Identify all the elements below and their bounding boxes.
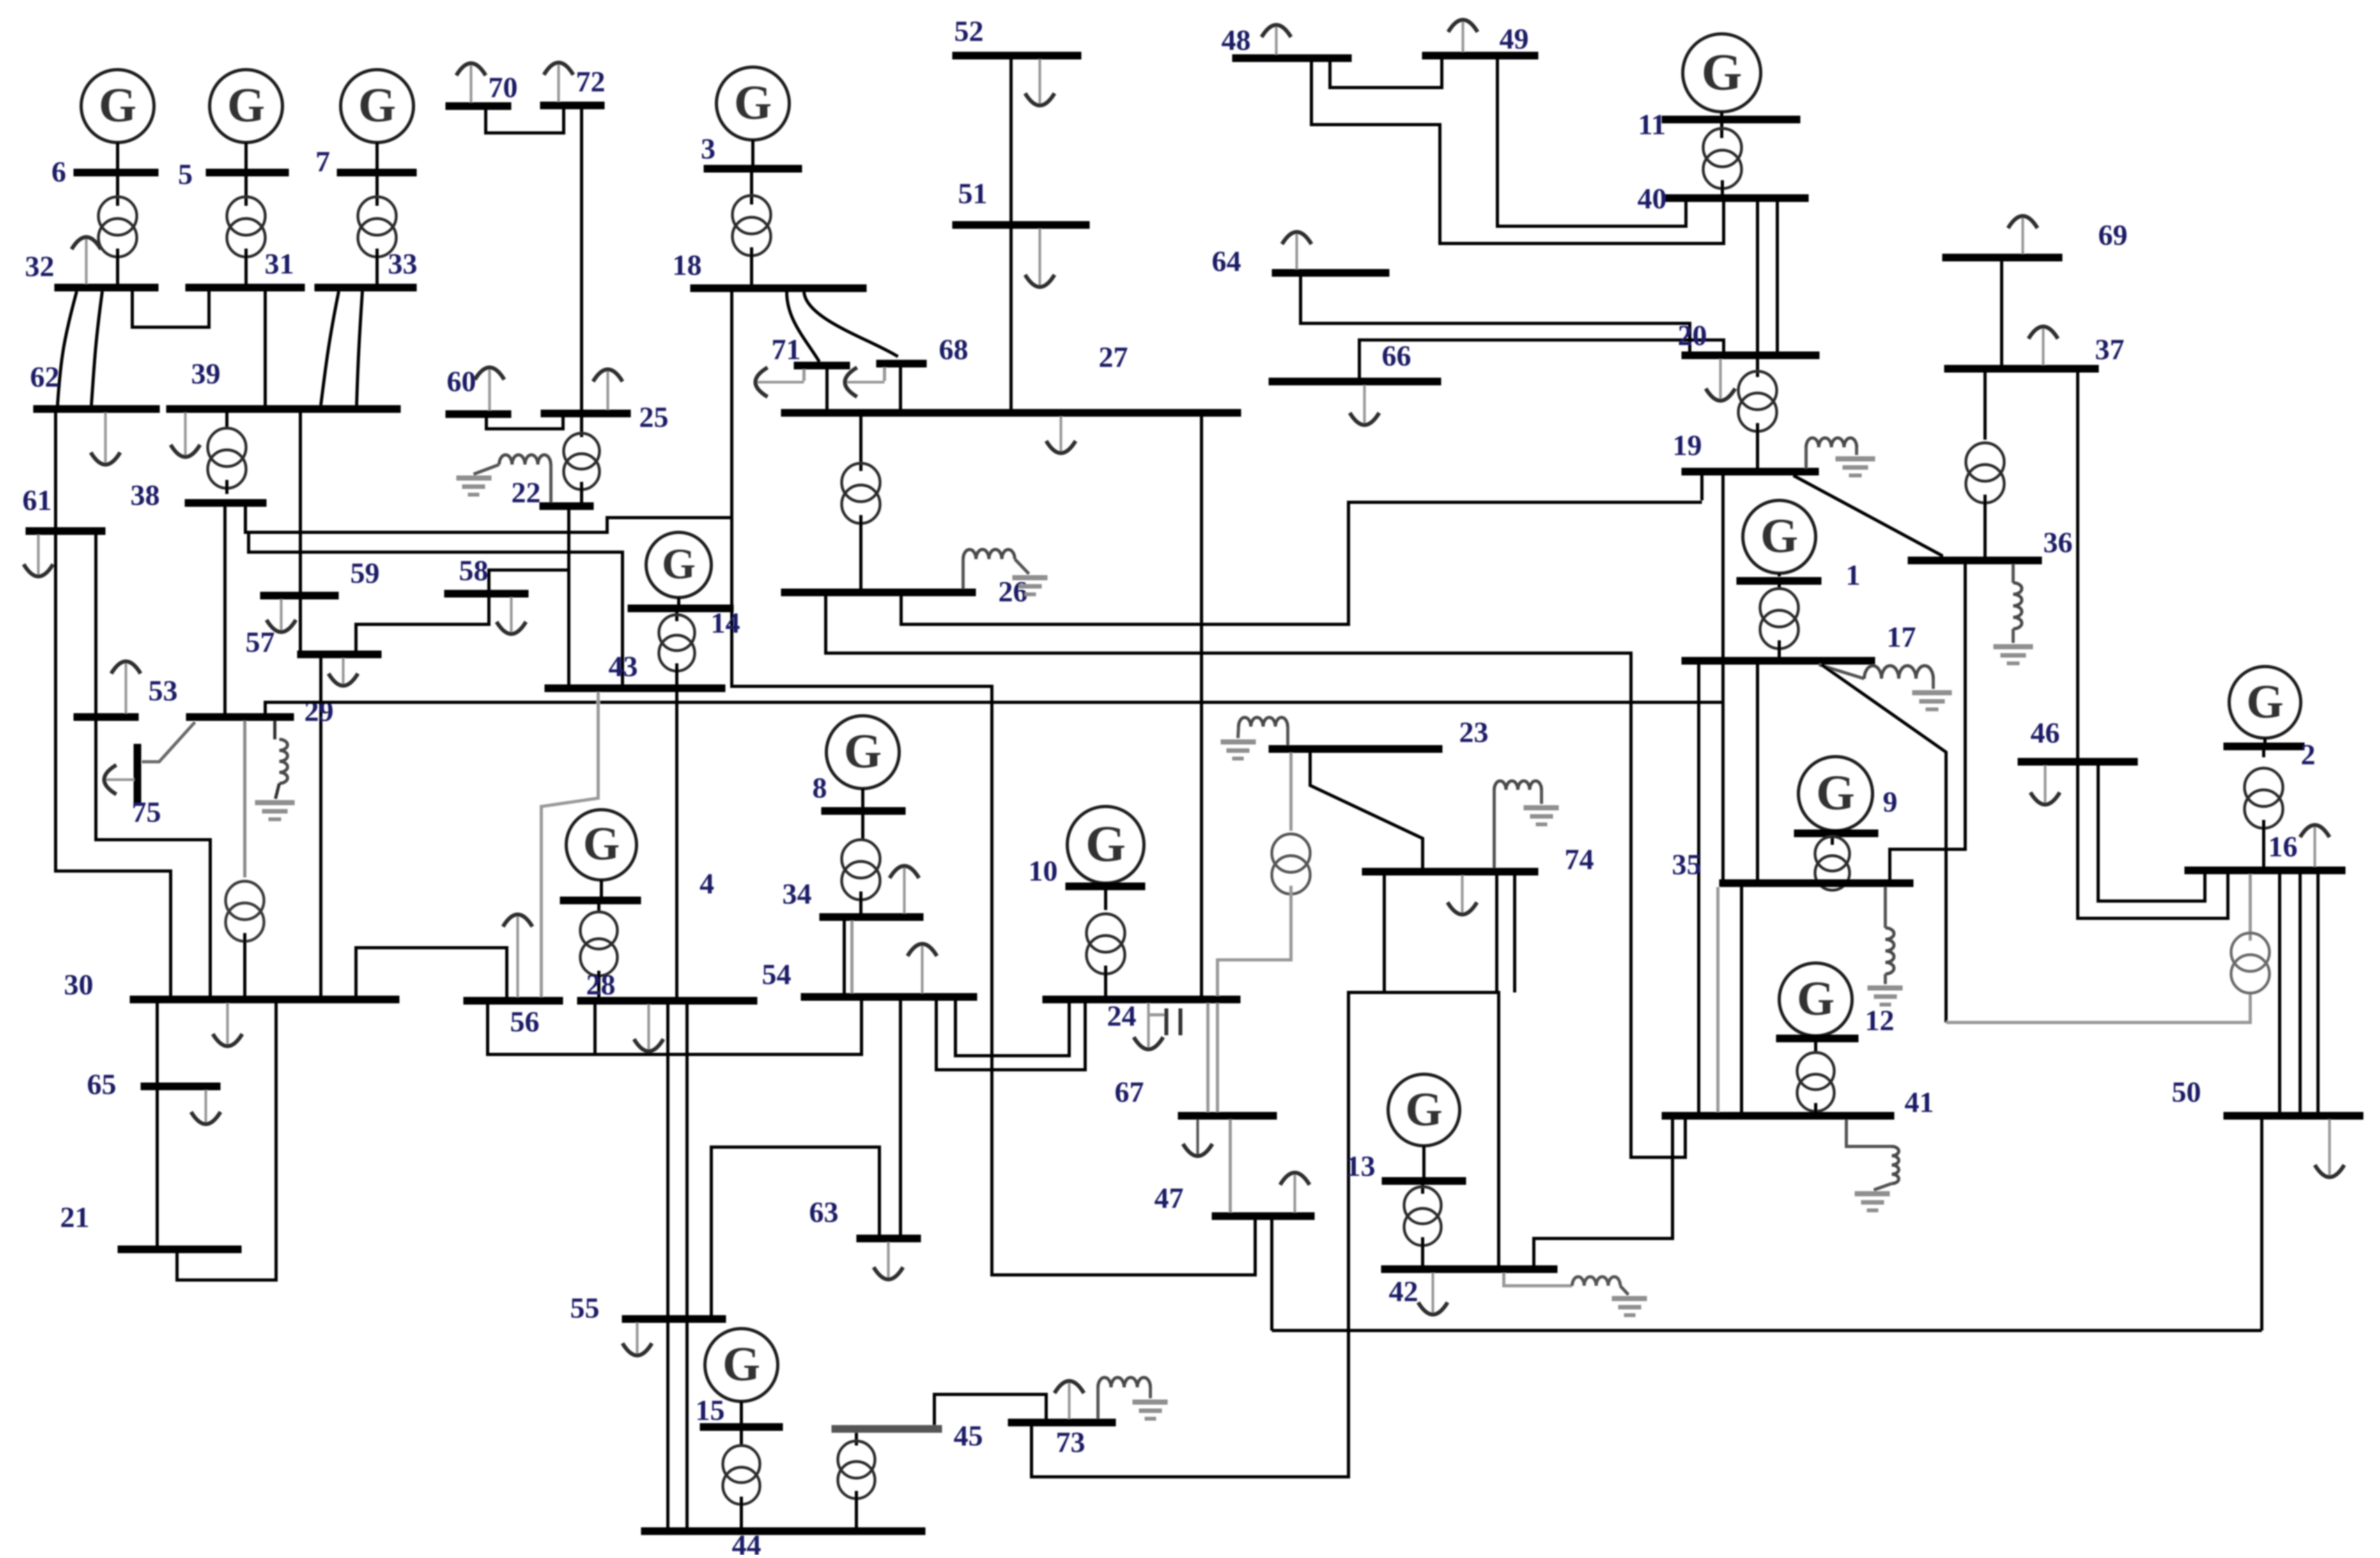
wire transformer 20 down — [1756, 423, 1759, 468]
wire tie 28 riser — [594, 1005, 597, 1054]
wire tie 21-30 — [177, 1003, 276, 1280]
injection arrow (up) bus 73 — [1055, 1381, 1084, 1419]
svg-text:8: 8 — [812, 771, 827, 804]
svg-text:32: 32 — [25, 250, 54, 282]
svg-text:G: G — [358, 79, 396, 132]
reactor and ground at bus 29 — [255, 721, 295, 821]
wire line 24-67 gray — [1207, 1003, 1210, 1112]
injection arrow (up) bus 47 — [1280, 1173, 1310, 1212]
injection arrow (up) bus 48 — [1262, 25, 1291, 54]
capacitor at bus 24 — [1148, 1008, 1182, 1035]
wire bus 39 to transformer — [226, 413, 229, 427]
wire line 39-59 — [299, 413, 302, 592]
bus 43 bar and label — [545, 650, 725, 692]
wire bus 3 to transformer — [750, 173, 753, 204]
svg-text:54: 54 — [762, 958, 791, 991]
wire line 17-35 a — [1722, 665, 1725, 879]
wire line 19-36 diagonal — [1793, 475, 1942, 560]
wire line 31-39 — [264, 291, 267, 405]
wire line 47-50 drop — [1271, 1220, 1274, 1330]
svg-text:G: G — [722, 1338, 760, 1391]
bus 28 bar and label — [577, 968, 757, 1005]
bus 57 bar and label — [245, 626, 382, 658]
wire line 23-67 gray — [1290, 753, 1293, 831]
wire line 49-40 — [1497, 59, 1686, 226]
transformer T 13-42 — [1404, 1187, 1441, 1246]
generator G7 — [341, 70, 413, 143]
wire line 16-50 b — [2299, 874, 2302, 1112]
wire bus 6 to transformer — [116, 176, 120, 206]
svg-text:25: 25 — [639, 401, 668, 433]
bus 21 bar and label — [60, 1201, 242, 1253]
wire transformer 29 down — [243, 933, 247, 996]
wire bus 29 to transformer 30 — [243, 721, 247, 877]
svg-text:70: 70 — [488, 71, 518, 104]
svg-text:15: 15 — [695, 1394, 725, 1426]
svg-text:G: G — [734, 76, 771, 130]
svg-text:38: 38 — [130, 479, 160, 511]
bus 18 bar and label — [672, 249, 867, 292]
bus 53 bar and label — [73, 674, 178, 721]
wire gen 12 lead — [1814, 1035, 1818, 1036]
bus 55 bar and label — [570, 1292, 726, 1324]
transformer T 12-41 — [1797, 1053, 1834, 1111]
bus 44 bar and label — [641, 1527, 925, 1558]
wire line 38-43 upper — [245, 507, 732, 532]
wire line 30-65 — [156, 1003, 159, 1083]
bus 45 bar and label — [831, 1419, 983, 1452]
svg-text:35: 35 — [1672, 848, 1701, 881]
wire gen 5 lead — [245, 143, 248, 169]
wire tie 48-49 — [1330, 59, 1442, 88]
svg-text:52: 52 — [954, 15, 984, 47]
bus 37 bar and label — [1944, 333, 2124, 373]
transformer T 3-18 — [732, 196, 771, 256]
svg-text:G: G — [1405, 1083, 1442, 1136]
wire stub 71 arrow — [803, 369, 806, 381]
svg-text:3: 3 — [701, 132, 716, 165]
bus 65 bar and label — [87, 1068, 220, 1100]
bus 5 bar and label — [178, 158, 290, 190]
svg-text:19: 19 — [1673, 429, 1702, 461]
svg-text:31: 31 — [265, 247, 294, 280]
svg-text:22: 22 — [511, 476, 541, 509]
wire tie 54-24 b — [955, 1001, 1069, 1056]
wire line 71-27 — [826, 369, 829, 410]
svg-text:G: G — [98, 79, 136, 132]
wire line 50 riser to long line — [2260, 1120, 2264, 1330]
wire bus 4 to transformer — [598, 904, 601, 912]
injection arrow (up) bus 53 — [111, 661, 141, 713]
bus 58 bar and label — [444, 554, 529, 598]
wire tie 56-28-54 — [488, 1001, 862, 1054]
load arrow (down) bus 59 — [267, 599, 296, 632]
injection arrow (up) bus 32 — [72, 237, 101, 284]
injection arrow (up) bus 49 — [1448, 20, 1478, 52]
wire transformer 10 down — [1104, 966, 1108, 996]
load arrow (down) bus 66 — [1350, 385, 1379, 425]
injection arrow (up) bus 69 — [2008, 216, 2037, 254]
wire bus 15 to transformer — [740, 1431, 743, 1446]
wire gen 1 lead — [1778, 573, 1781, 576]
injection arrow (up) bus 56 — [503, 914, 532, 997]
wire tie 70-72 — [486, 109, 564, 133]
wire line 32-62 b — [91, 291, 102, 405]
svg-text:16: 16 — [2268, 830, 2298, 863]
generator G13 — [1388, 1074, 1460, 1146]
load arrow (down) bus 30 — [213, 1003, 242, 1046]
svg-text:9: 9 — [1883, 785, 1897, 818]
load arrow (down) bus 67 — [1183, 1120, 1212, 1156]
load arrow (down) bus 61 — [24, 535, 53, 576]
wire line 40-20 b — [1776, 202, 1779, 352]
bus 66 bar and label — [1269, 339, 1441, 385]
svg-text:41: 41 — [1905, 1086, 1934, 1118]
svg-text:37: 37 — [2095, 333, 2124, 366]
svg-text:G: G — [1797, 972, 1834, 1026]
svg-text:64: 64 — [1212, 245, 1241, 277]
reactor and ground at bus 17 — [1819, 665, 1952, 711]
wire line 35-41 b — [1740, 887, 1743, 1112]
wire transformer 4 down — [598, 971, 601, 997]
wire line 52-51-27 — [1010, 59, 1013, 409]
wire transformer 5 down — [245, 249, 248, 286]
load arrow (down) bus 50 — [2315, 1120, 2344, 1177]
wire line 17-41 — [1697, 665, 1701, 1112]
load arrow (down) bus 74 — [1448, 875, 1477, 914]
svg-text:39: 39 — [191, 357, 220, 390]
wire line 48-40 — [1311, 62, 1724, 243]
bus 31 bar and label — [185, 247, 305, 291]
svg-text:66: 66 — [1382, 339, 1411, 372]
wire line 61-53 — [95, 535, 98, 713]
bus 17 bar and label — [1681, 621, 1916, 665]
bus 74 bar and label — [1362, 843, 1594, 875]
wire tie 32-31 — [132, 291, 209, 327]
svg-text:18: 18 — [672, 249, 702, 281]
wire line 74-42 right — [1513, 875, 1517, 992]
injection arrow (up) bus 16 — [2300, 825, 2330, 867]
wire line 46-16 — [2098, 766, 2205, 901]
transformer T 1-17 — [1760, 589, 1798, 649]
load arrow (down) bus 55 — [622, 1323, 652, 1355]
transformer T 9-35 — [1815, 837, 1850, 890]
bus 26 bar and label — [781, 575, 1028, 608]
load arrow (down) bus 63 — [874, 1242, 903, 1279]
wire line 57-30 — [320, 658, 323, 996]
svg-text:40: 40 — [1637, 182, 1667, 215]
svg-text:74: 74 — [1565, 843, 1594, 875]
svg-text:42: 42 — [1389, 1275, 1418, 1307]
wire line 23-74 diagonal — [1310, 753, 1423, 868]
generator G1 — [1743, 500, 1816, 573]
wire line 43-56 gray — [541, 692, 598, 997]
svg-text:G: G — [844, 725, 881, 778]
svg-text:72: 72 — [576, 65, 605, 98]
wire gen 11 lead — [1720, 112, 1724, 116]
svg-text:53: 53 — [148, 674, 178, 707]
bus 1 bar and label — [1736, 559, 1860, 591]
transformer T 7 — [358, 197, 396, 257]
svg-text:21: 21 — [60, 1201, 89, 1233]
svg-text:61: 61 — [22, 484, 52, 516]
svg-text:27: 27 — [1099, 341, 1128, 373]
svg-text:36: 36 — [2043, 526, 2073, 559]
transformer T 10-24 — [1086, 914, 1125, 974]
wire gen 9 lead — [1834, 830, 1837, 831]
wire transformer 7 down — [376, 249, 379, 286]
wire line 69-37 — [2000, 261, 2004, 365]
svg-text:G: G — [227, 79, 265, 132]
wire line 74-73/50 — [1032, 875, 1384, 1477]
svg-text:49: 49 — [1499, 22, 1529, 55]
svg-text:24: 24 — [1107, 999, 1136, 1032]
wire transformer 6 down — [116, 249, 120, 286]
bus 62 bar and label — [30, 360, 160, 413]
injection arrow (up) bus 72 — [544, 63, 573, 102]
bus 52 bar and label — [952, 15, 1081, 59]
svg-text:50: 50 — [2172, 1076, 2201, 1108]
injection arrow (up) bus 64 — [1282, 232, 1311, 269]
wire line 37-16 — [2078, 766, 2228, 918]
wire transformer 25 down — [580, 482, 583, 502]
generator G5 — [210, 70, 282, 143]
injection arrow (up) bus 70 — [456, 63, 486, 102]
svg-text:75: 75 — [132, 796, 161, 828]
wire gen 6 lead — [116, 143, 120, 169]
wire transformer 2 down — [2262, 820, 2266, 867]
wire bus 9 to transformer — [1831, 837, 1834, 845]
generator G9 — [1798, 757, 1873, 831]
wire line 43-28 — [676, 692, 679, 997]
svg-text:59: 59 — [350, 557, 380, 589]
wire transformer 45 down — [855, 1491, 858, 1527]
wire line 18-71 — [787, 292, 819, 362]
load arrow (down) bus 57 — [328, 658, 358, 686]
reactor and ground at bus 19 — [1806, 438, 1875, 477]
bus 23 bar and label — [1269, 716, 1488, 753]
wire line 55-63 — [711, 1147, 879, 1315]
wire line 27-24 — [1200, 417, 1203, 996]
svg-text:65: 65 — [87, 1068, 116, 1100]
load arrow (down) bus 46 — [2030, 766, 2060, 805]
wire line 59-57 column — [299, 599, 302, 651]
wire stub 68 arrow — [883, 367, 886, 381]
wire line 55-44 a — [667, 1323, 670, 1527]
bus 4 bar and label — [560, 867, 715, 904]
wire line 55-44 b — [686, 1323, 689, 1527]
wire line 16-50 c — [2317, 874, 2320, 1112]
svg-text:29: 29 — [304, 695, 334, 727]
svg-text:67: 67 — [1115, 1076, 1144, 1108]
bus 6 bar and label — [52, 155, 159, 188]
svg-text:58: 58 — [459, 554, 488, 587]
wire line 58-22 — [489, 570, 569, 590]
svg-text:44: 44 — [732, 1529, 761, 1555]
wire line 62-61 — [54, 413, 58, 527]
bus 22 bar and label — [511, 476, 594, 510]
load arrow (down) bus 62 — [91, 413, 120, 465]
generator G14 — [646, 532, 711, 598]
wire tie 60-25 — [486, 417, 563, 429]
wire bus 2 to transformer — [2262, 750, 2266, 757]
bus 2 bar and label — [2223, 738, 2315, 771]
wire transformer 14 down — [676, 663, 679, 684]
svg-text:55: 55 — [570, 1292, 599, 1324]
svg-text:G: G — [1085, 815, 1125, 872]
wire line 64-20 — [1301, 277, 1690, 351]
wire bus 5 to transformer — [245, 176, 248, 206]
bus 68 bar and label — [876, 333, 968, 367]
wire transformer 15 down — [740, 1497, 743, 1527]
load arrow (down) bus 65 — [191, 1090, 220, 1124]
load arrow (down) bus 20 — [1706, 359, 1735, 401]
wire bus 14 to transformer — [676, 612, 679, 621]
wire rect top 74-42 — [1348, 991, 1499, 994]
wire line 40-20 a — [1756, 202, 1759, 355]
svg-text:48: 48 — [1221, 24, 1251, 56]
bus 7 bar and label — [316, 145, 417, 178]
wire transformer 3 down — [750, 247, 753, 284]
reactor and ground at bus 35 — [1867, 887, 1903, 1007]
svg-text:28: 28 — [586, 968, 615, 1001]
reactor and ground at bus 36 — [1993, 564, 2033, 665]
wire bus 13 to transformer — [1421, 1185, 1425, 1194]
wire gen 3 lead — [752, 140, 755, 165]
svg-text:34: 34 — [782, 877, 812, 910]
wire line 47/73-50 long — [1272, 1329, 2262, 1332]
injection arrow (up) bus 25 — [593, 369, 622, 410]
bus 35 bar and label — [1672, 848, 1913, 887]
transformer T 37-36 — [1966, 443, 2004, 503]
reactor and ground at bus 23 — [1221, 718, 1288, 760]
svg-text:62: 62 — [30, 360, 59, 393]
arrow (left) export arrow bus 71 — [755, 367, 804, 397]
bus 16 bar and label — [2184, 830, 2345, 874]
bus 71 bar and label — [771, 333, 850, 369]
wire bus 11 to transformer — [1720, 123, 1724, 138]
svg-text:G: G — [583, 818, 620, 870]
wire line 53-30 L — [96, 721, 210, 996]
wire line 17-35 b — [1756, 665, 1759, 879]
svg-text:46: 46 — [2030, 716, 2060, 749]
wire transformer 9 down — [1831, 879, 1834, 883]
wire line 67-47 gray — [1229, 1120, 1232, 1212]
wire line 34-54 b — [851, 921, 854, 993]
svg-text:71: 71 — [771, 333, 801, 366]
svg-text:G: G — [2246, 675, 2283, 729]
wire bus 10 to transformer — [1104, 890, 1108, 910]
bus 72 bar and label — [540, 65, 605, 109]
wire bus 16 to transformer 50 — [2249, 874, 2252, 941]
load arrow (down) bus 58 — [497, 598, 526, 634]
generator G12 — [1779, 963, 1852, 1036]
transformer T 45-44 — [838, 1441, 875, 1499]
generator G4 — [566, 810, 637, 880]
bus 49 bar and label — [1422, 22, 1538, 59]
bus 67 bar and label — [1115, 1076, 1277, 1120]
wire gen 7 lead — [376, 143, 379, 169]
wire line 28-55 a — [667, 1005, 670, 1315]
svg-text:14: 14 — [711, 606, 740, 639]
wire line 35-41 a — [1717, 887, 1720, 1112]
svg-text:G: G — [1816, 764, 1855, 820]
bus 42 bar and label — [1381, 1265, 1557, 1307]
svg-text:73: 73 — [1056, 1426, 1085, 1458]
wire transformer 27-26 down — [860, 515, 863, 589]
transformer T 11-40 — [1703, 128, 1742, 189]
bus 9 bar and label — [1794, 785, 1897, 837]
wire line 58-57 — [356, 598, 489, 651]
bus 60 bar and label — [445, 365, 511, 418]
wire line 34-54 a — [843, 921, 846, 993]
wire line 37-46 — [2076, 373, 2080, 758]
svg-text:G: G — [1701, 43, 1742, 101]
bus 14 bar and label — [628, 605, 740, 639]
load arrow (down) bus 51 — [1025, 229, 1055, 287]
arrow (left) export arrow bus 68 — [845, 367, 885, 397]
generator G6 — [81, 70, 154, 143]
wire line 26-19 riser — [1701, 475, 1704, 500]
svg-text:60: 60 — [447, 365, 476, 397]
wire line 17-16 gray part — [1946, 994, 2250, 1022]
svg-text:10: 10 — [1028, 854, 1058, 887]
wire line 72-25 — [580, 109, 583, 410]
transformer T 2-16 — [2245, 768, 2283, 828]
svg-text:56: 56 — [510, 1005, 539, 1038]
wire bus 7 to transformer — [376, 176, 379, 206]
wire gen 15 lead — [740, 1401, 743, 1423]
wire gen 10 lead — [1104, 883, 1108, 883]
wire gen 13 lead — [1423, 1146, 1426, 1178]
wire line 22-43 — [568, 510, 571, 684]
svg-text:43: 43 — [608, 650, 638, 683]
wire gen 14 lead — [677, 598, 681, 605]
injection arrow (up) bus 60 — [475, 367, 504, 410]
bus 34 bar and label — [782, 877, 923, 921]
transformer T 20-19 — [1738, 371, 1777, 431]
wire line 16-50 a — [2278, 874, 2282, 1112]
injection arrow (up) bus 34 — [890, 866, 919, 913]
bus 24 bar and label — [1042, 996, 1240, 1032]
load arrow (down) bus 52 — [1025, 59, 1055, 105]
bus 12 bar and label — [1776, 1004, 1894, 1042]
wire line 17-16 diagonal — [1821, 665, 1946, 1022]
injection arrow (up) bus 54 — [908, 944, 937, 993]
svg-text:69: 69 — [2098, 219, 2128, 251]
generator G15 — [705, 1329, 778, 1401]
wire gen 2 lead — [2264, 738, 2267, 743]
bus 56 bar and label — [463, 997, 563, 1038]
transformer T 16-x — [2231, 933, 2269, 993]
svg-text:G: G — [662, 539, 696, 588]
wire bus 45 to transformer 44 — [855, 1433, 858, 1446]
bus 32 bar and label — [25, 250, 158, 291]
transformer T 25-22 — [564, 433, 599, 490]
wire line 61-30 L — [56, 535, 171, 996]
wire bus 12 to transformer — [1814, 1042, 1818, 1052]
reactor and ground at bus 74 — [1494, 781, 1559, 868]
bus 61 bar and label — [22, 484, 105, 535]
bus 36 bar and label — [1908, 526, 2073, 564]
bus 48 bar and label — [1221, 24, 1352, 62]
svg-text:7: 7 — [316, 145, 330, 178]
load arrow (down) bus 42 — [1418, 1273, 1448, 1315]
svg-text:11: 11 — [1638, 108, 1665, 141]
wire line 23-67 gray lower — [1217, 886, 1291, 1112]
generator G8 — [826, 716, 899, 789]
bus 20 bar and label — [1678, 319, 1820, 359]
